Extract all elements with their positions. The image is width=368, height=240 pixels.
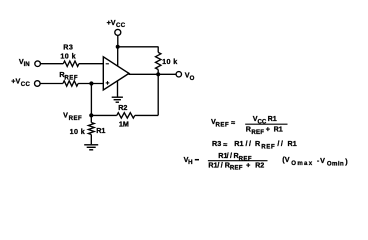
svg-text:10 k: 10 k <box>70 127 86 136</box>
svg-text:R3: R3 <box>63 42 73 51</box>
svg-text:/: / <box>246 139 248 148</box>
svg-text:/: / <box>230 151 232 160</box>
svg-text:10 k: 10 k <box>162 57 178 66</box>
svg-text:/: / <box>217 160 219 169</box>
svg-text:/: / <box>277 139 279 148</box>
svg-text:REF: REF <box>216 122 230 129</box>
svg-text:REF: REF <box>251 129 264 136</box>
svg-text:R3: R3 <box>212 139 221 148</box>
svg-text:/: / <box>281 139 283 148</box>
svg-text:≈: ≈ <box>231 118 235 127</box>
svg-text:REF: REF <box>69 115 83 122</box>
svg-text:Omin: Omin <box>327 161 344 168</box>
svg-text:-V: -V <box>317 156 326 165</box>
svg-text:R1: R1 <box>96 126 105 135</box>
svg-text:): ) <box>345 157 348 166</box>
svg-text:R1: R1 <box>288 139 297 148</box>
svg-text:/: / <box>227 151 229 160</box>
svg-text:REF: REF <box>230 165 243 172</box>
svg-text:Omax: Omax <box>291 160 313 167</box>
svg-text:/: / <box>221 160 223 169</box>
svg-text:+: + <box>246 160 250 169</box>
svg-text:IN: IN <box>24 61 30 68</box>
svg-text:10 k: 10 k <box>60 51 76 60</box>
svg-text:H: H <box>188 159 192 166</box>
svg-text:/: / <box>249 139 251 148</box>
svg-text:REF: REF <box>261 143 275 150</box>
svg-text:+V: +V <box>107 18 116 27</box>
svg-text:1M: 1M <box>119 119 129 128</box>
svg-text:+: + <box>266 125 270 134</box>
svg-text:O: O <box>190 75 195 82</box>
svg-text:CC: CC <box>21 81 31 88</box>
svg-text:(V: (V <box>282 155 289 164</box>
svg-text:REF: REF <box>64 74 78 81</box>
svg-text:R1: R1 <box>268 114 277 123</box>
svg-text:R2: R2 <box>255 160 264 169</box>
svg-text:R: R <box>255 139 261 148</box>
svg-text:V: V <box>63 110 68 119</box>
svg-text:+V: +V <box>11 77 20 86</box>
svg-text:≈: ≈ <box>223 140 227 149</box>
svg-text:R1: R1 <box>234 139 243 148</box>
svg-text:R1: R1 <box>274 125 283 134</box>
svg-text:CC: CC <box>116 22 126 29</box>
svg-text:R2: R2 <box>118 103 127 112</box>
svg-text:R1: R1 <box>208 160 217 169</box>
